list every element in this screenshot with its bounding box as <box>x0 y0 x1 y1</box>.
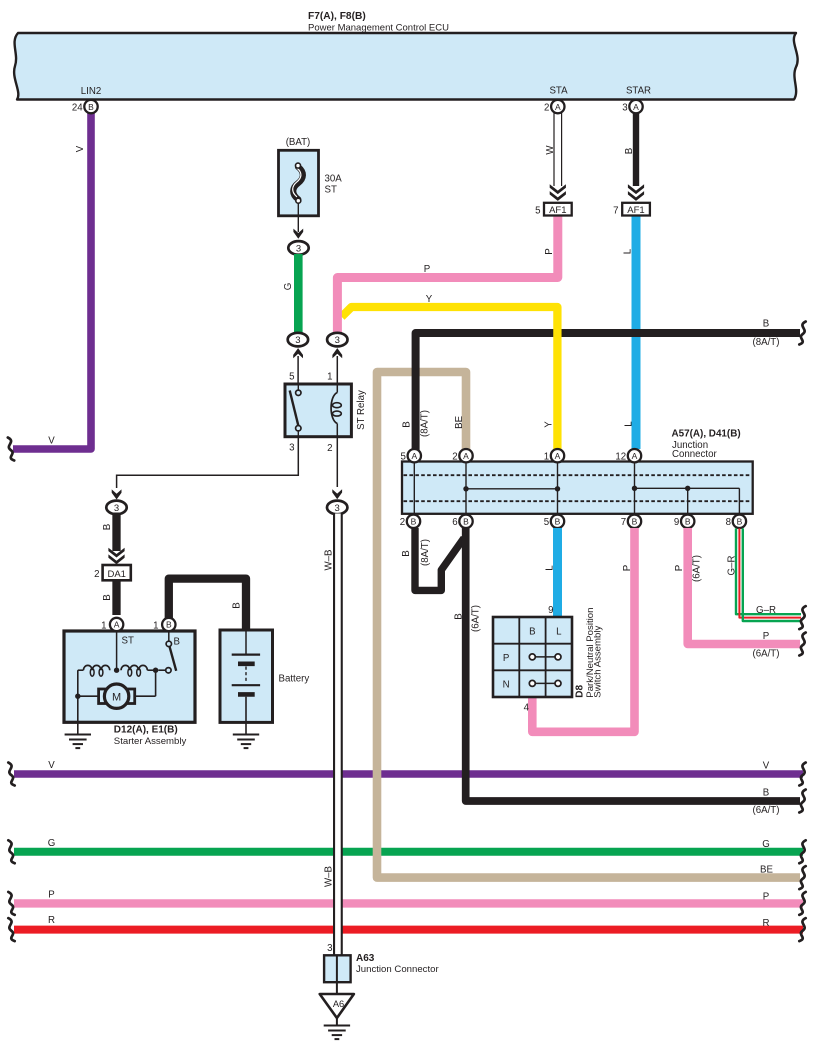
svg-text:2: 2 <box>327 443 332 454</box>
svg-text:W–B: W–B <box>323 866 334 887</box>
svg-text:3: 3 <box>622 102 627 113</box>
svg-text:(6A/T): (6A/T) <box>753 649 780 660</box>
svg-text:G–R: G–R <box>756 605 776 616</box>
svg-text:2: 2 <box>544 102 549 113</box>
svg-text:M: M <box>112 692 121 704</box>
svg-text:A: A <box>555 451 561 461</box>
svg-text:12: 12 <box>615 452 626 463</box>
svg-text:B: B <box>88 102 94 112</box>
svg-text:1: 1 <box>153 620 158 631</box>
svg-text:7: 7 <box>621 517 626 528</box>
svg-text:B: B <box>624 148 635 154</box>
svg-text:BE: BE <box>454 415 465 428</box>
svg-text:Y: Y <box>426 294 433 305</box>
svg-text:ST: ST <box>325 185 337 196</box>
svg-text:5: 5 <box>544 517 549 528</box>
svg-text:1: 1 <box>544 452 549 463</box>
svg-text:V: V <box>763 761 770 772</box>
svg-text:24: 24 <box>72 102 83 113</box>
svg-text:(8A/T): (8A/T) <box>420 539 431 566</box>
svg-text:B: B <box>102 594 113 600</box>
svg-text:(BAT): (BAT) <box>286 137 311 148</box>
svg-text:1: 1 <box>101 620 106 631</box>
svg-text:A: A <box>411 451 417 461</box>
svg-text:G: G <box>48 838 56 849</box>
svg-text:A: A <box>555 102 561 112</box>
svg-text:V: V <box>75 145 86 152</box>
svg-text:L: L <box>623 421 634 427</box>
svg-text:A57(A), D41(B): A57(A), D41(B) <box>672 429 741 440</box>
svg-text:P: P <box>763 631 769 642</box>
svg-text:G: G <box>283 283 294 291</box>
svg-text:5: 5 <box>289 372 294 383</box>
svg-text:B: B <box>632 517 638 527</box>
svg-text:DA1: DA1 <box>107 569 125 580</box>
svg-text:B: B <box>166 620 172 630</box>
svg-text:P: P <box>674 565 685 571</box>
svg-text:W–B: W–B <box>323 550 334 571</box>
svg-text:3: 3 <box>327 943 332 954</box>
svg-text:3: 3 <box>114 503 119 514</box>
svg-text:G–R: G–R <box>726 556 737 576</box>
svg-text:B: B <box>401 550 412 556</box>
svg-text:Y: Y <box>543 421 554 428</box>
svg-text:A63: A63 <box>356 953 375 964</box>
svg-text:B: B <box>231 602 242 608</box>
svg-text:3: 3 <box>335 503 340 514</box>
svg-text:(8A/T): (8A/T) <box>753 337 780 348</box>
svg-text:2: 2 <box>452 452 457 463</box>
svg-text:A: A <box>632 451 638 461</box>
svg-text:G: G <box>762 839 770 850</box>
svg-text:B: B <box>463 517 469 527</box>
svg-text:5: 5 <box>401 452 406 463</box>
svg-text:AF1: AF1 <box>549 205 566 216</box>
svg-text:W: W <box>545 145 556 155</box>
svg-text:9: 9 <box>548 605 553 616</box>
svg-text:6: 6 <box>452 517 457 528</box>
svg-text:4: 4 <box>524 703 530 714</box>
svg-text:R: R <box>48 915 55 926</box>
svg-text:A: A <box>633 102 639 112</box>
svg-text:V: V <box>48 436 55 447</box>
svg-text:A: A <box>114 620 120 630</box>
svg-text:B: B <box>763 788 769 799</box>
svg-text:B: B <box>174 637 180 648</box>
svg-text:7: 7 <box>613 206 618 217</box>
svg-text:30A: 30A <box>325 174 343 185</box>
svg-text:A6: A6 <box>333 999 344 1009</box>
svg-text:L: L <box>544 565 555 571</box>
svg-text:B: B <box>529 626 535 637</box>
svg-text:5: 5 <box>535 206 540 217</box>
svg-text:P: P <box>424 264 430 275</box>
svg-text:B: B <box>737 517 743 527</box>
svg-text:AF1: AF1 <box>627 205 644 216</box>
svg-text:L: L <box>622 248 633 254</box>
svg-text:Switch Assembly: Switch Assembly <box>593 626 604 698</box>
svg-text:LIN2: LIN2 <box>81 86 101 97</box>
svg-text:B: B <box>102 524 113 530</box>
svg-text:V: V <box>48 760 55 771</box>
svg-text:R: R <box>763 918 770 929</box>
svg-text:Connector: Connector <box>672 449 717 460</box>
svg-text:3: 3 <box>296 244 301 255</box>
svg-text:9: 9 <box>674 517 679 528</box>
svg-text:STAR: STAR <box>626 86 651 97</box>
svg-text:P: P <box>622 565 633 571</box>
svg-text:B: B <box>453 613 464 619</box>
svg-text:3: 3 <box>335 335 340 346</box>
svg-text:(6A/T): (6A/T) <box>691 555 702 582</box>
svg-text:F7(A), F8(B): F7(A), F8(B) <box>308 11 366 22</box>
svg-text:D8: D8 <box>575 684 586 697</box>
svg-text:Starter Assembly: Starter Assembly <box>114 736 187 747</box>
svg-text:3: 3 <box>289 443 294 454</box>
svg-text:8: 8 <box>726 517 731 528</box>
svg-text:ST: ST <box>122 636 134 647</box>
svg-text:STA: STA <box>549 86 568 97</box>
svg-text:(6A/T): (6A/T) <box>471 605 482 632</box>
svg-text:L: L <box>556 626 562 637</box>
svg-text:B: B <box>763 319 769 330</box>
svg-text:P: P <box>544 248 555 254</box>
svg-text:ST Relay: ST Relay <box>356 390 367 430</box>
svg-text:P: P <box>48 890 54 901</box>
svg-text:(6A/T): (6A/T) <box>753 805 780 816</box>
svg-text:Junction Connector: Junction Connector <box>356 964 439 975</box>
svg-text:A: A <box>463 451 469 461</box>
svg-text:B: B <box>685 517 691 527</box>
svg-text:B: B <box>555 517 561 527</box>
svg-text:B: B <box>411 517 417 527</box>
svg-text:N: N <box>503 680 510 691</box>
svg-text:B: B <box>402 421 413 427</box>
svg-text:2: 2 <box>400 517 405 528</box>
svg-text:1: 1 <box>327 372 332 383</box>
svg-text:Power Management Control ECU: Power Management Control ECU <box>308 23 449 34</box>
svg-text:3: 3 <box>295 335 300 346</box>
svg-text:Battery: Battery <box>279 674 310 685</box>
svg-text:(8A/T): (8A/T) <box>420 410 431 437</box>
svg-text:D12(A), E1(B): D12(A), E1(B) <box>114 725 178 736</box>
svg-text:2: 2 <box>94 569 99 580</box>
svg-text:P: P <box>503 653 509 664</box>
svg-text:P: P <box>763 892 769 903</box>
